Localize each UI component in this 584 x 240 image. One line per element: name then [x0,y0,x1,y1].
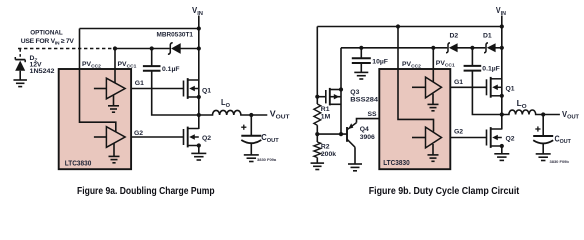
schottky diode MBR0530T1 [168,43,181,54]
driver G1 ground (right) [428,94,439,111]
wire VIN drop (right) [501,16,503,115]
svg-text:3906: 3906 [360,134,375,141]
svg-text:G1: G1 [135,80,144,87]
resistor R2 200k [314,142,321,158]
wire Q4 collector to ground [354,147,356,164]
wire G1 (right) [450,86,486,88]
driver G1 input stub (right) [412,86,426,88]
wire PVCC2 pin to outer rail (right) [398,27,434,132]
wire 10uF top lead [360,48,362,59]
node PVCC1 junction (left) [113,46,117,50]
node switch node (left) [197,113,201,117]
LTC3830 IC U1 (left) [59,69,131,169]
node D1-VIN junction [500,46,504,50]
schottky diode D1 [484,43,496,53]
wire PVCC1 node to diode (left) [115,48,170,50]
node PVCC2 rail tee (right) [396,24,400,28]
label plus COUT (left) [241,125,246,130]
wire VOUT (right) [543,114,560,116]
zener diode DZ [15,57,25,80]
gate driver buffer G1 (left, inside U1) [106,78,125,99]
node Q2 source-body (left) [197,143,201,147]
gate driver buffer G2 (right, inside U2) [426,127,442,148]
svg-text:Q1: Q1 [506,86,515,93]
driver G2 ground (right) [428,144,439,161]
wire D2 anode side [433,47,447,49]
transistor Q3 BSS284 [326,88,341,106]
driver G2 input stub (right) [412,137,426,139]
ground below COUT (left) [244,155,259,162]
capacitor 0.1uF (right) [464,66,482,71]
wire G2 (left) [131,136,183,138]
wire 10uF bottom lead [360,63,362,72]
ground below Q4 [348,164,362,171]
wire PVCC2 pin to top rail (left) [80,29,116,132]
svg-text:LTC3830: LTC3830 [65,160,92,167]
wire PVCC1 pin (left) [114,49,116,83]
driver G2 input stub (left) [94,136,107,138]
node VOUT tap (right) [541,112,545,116]
wire diode anode to VIN (left) [180,48,198,50]
schottky diode D2 [446,43,458,53]
driver G1 input stub (left) [94,88,107,90]
ground below COUT (right) [536,154,551,161]
node 0.1uF tap (right) [470,46,474,50]
gate driver buffer G2 (left, inside U1) [106,127,125,148]
wire D1 anode to VIN [495,47,502,49]
svg-text:1N5242: 1N5242 [30,68,55,75]
wire Q2 source to ground (left) [198,146,200,154]
svg-text:0.1µF: 0.1µF [482,66,500,73]
svg-text:0.1µF: 0.1µF [162,66,180,73]
wire VIN top rail (left) [80,28,199,30]
svg-text:SS: SS [368,111,378,118]
wire Q2 source to ground (right) [501,146,503,154]
driver G1 ground (left) [108,95,119,112]
wire COUT top lead (right) [542,115,544,137]
wire 0.1uF cap top lead (left) [151,49,153,67]
gate driver buffer G1 (right, inside U2) [426,77,442,98]
svg-text:3830 F09a: 3830 F09a [257,157,277,162]
svg-text:OPTIONAL: OPTIONAL [30,29,63,36]
transistor Q4 3906 [347,123,357,148]
ground below R2 [311,163,325,169]
ground below Q2 (left) [191,153,206,160]
node Q3 source-body [339,87,343,91]
wire PVCC1 pin (right) [432,48,434,82]
wire left rail down (right) [316,27,318,105]
wire Q3 gate (right) [317,96,326,98]
wire switch node to Q2 drain (left) [198,115,200,129]
transistor Q2 (left) [184,127,199,148]
node Q3 drain junction [339,132,343,136]
capacitor 10uF [352,58,371,63]
svg-text:Q2: Q2 [202,135,211,142]
wire R1 to divider node [316,125,318,142]
zener diode DZ dashed stub [19,49,21,57]
wire VIN outer rail (right) [317,26,502,28]
node 10uF tap [359,46,363,50]
transistor Q1 (right) [487,77,502,98]
capacitor COUT (left) [241,136,261,143]
node Q2 source-body (right) [500,144,504,148]
wire 0.1uF bottom lead to switch node (left) [152,71,199,115]
node Q1 source-body (left) [197,95,201,99]
svg-text:LTC3830: LTC3830 [383,160,410,167]
wire rail corner to Q3 (right) [340,48,342,134]
svg-text:Q3: Q3 [350,89,359,96]
svg-text:BSS284: BSS284 [350,97,378,104]
svg-text:3830 F09b: 3830 F09b [550,159,570,164]
wire 0.1uF top lead (right) [471,48,473,66]
inductor LO (left) [199,110,252,115]
svg-text:R2: R2 [321,144,330,151]
node VOUT tap (left) [249,113,253,117]
node diode-VIN junction (left) [197,46,201,50]
wire switch node to Q2 drain (right) [501,115,503,130]
svg-text:Q1: Q1 [202,87,211,94]
svg-text:10µF: 10µF [372,58,388,65]
resistor R1 1M [314,104,321,125]
transistor Q1 (left) [184,78,199,99]
svg-text:1M: 1M [321,113,331,120]
node VIN tee (right) [500,24,504,28]
driver G2 ground (left) [109,144,120,163]
node Q3 gate tap [315,95,319,99]
svg-text:Figure 9b. Duty Cycle Clamp Ci: Figure 9b. Duty Cycle Clamp Circuit [369,186,520,197]
svg-text:Q2: Q2 [506,135,515,142]
node PVCC1 junction (right) [431,46,435,50]
node VIN tee (left) [197,26,201,30]
wire optional dashed rail [18,48,115,50]
svg-text:G2: G2 [134,130,143,137]
node Q1 source-body (right) [500,94,504,98]
LTC3830 IC U2 (right) [379,69,450,169]
capacitor COUT (right) [533,136,553,143]
label plus COUT (right) [535,126,540,131]
capacitor 0.1uF (left) [143,66,161,71]
node switch node (right) [500,112,504,116]
svg-text:G2: G2 [454,128,463,135]
wire R2 to ground [316,158,318,164]
ground below 10uF [354,72,368,79]
wire VIN drop (left) [198,16,200,116]
svg-text:Q4: Q4 [360,126,369,133]
svg-text:D2: D2 [450,32,459,39]
wire G1 (left) [131,88,183,90]
svg-text:MBR0530T1: MBR0530T1 [157,32,194,39]
svg-text:G1: G1 [454,79,463,86]
node cap tap (left) [150,46,154,50]
svg-text:R1: R1 [321,106,330,113]
wire COUT bottom lead (left) [250,143,252,155]
wire COUT top lead (left) [250,115,252,136]
transistor Q2 (right) [487,127,502,148]
wire G2 (right) [450,137,486,139]
wire PVCC rail (right) [341,47,433,49]
wire VOUT (left) [251,114,267,116]
wire D2 to D1 [457,47,485,49]
wire Q4 emitter to SS [357,119,380,123]
node divider junction [315,132,319,136]
wire 0.1uF bottom lead to switch node (right) [472,71,501,115]
inductor LO (right) [502,110,543,115]
svg-text:200k: 200k [321,151,336,158]
svg-text:D1: D1 [483,32,492,39]
ground below DZ [13,80,27,87]
wire COUT bottom lead (right) [542,144,544,154]
svg-text:Figure 9a. Doubling Charge Pum: Figure 9a. Doubling Charge Pump [77,186,215,197]
wire divider to Q4 base [317,133,347,135]
ground below Q2 (right) [494,154,509,161]
